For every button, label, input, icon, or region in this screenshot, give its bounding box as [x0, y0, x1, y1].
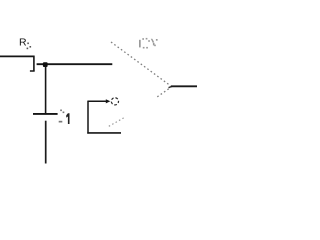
switch arm dashed CY [111, 42, 170, 86]
annotation dashes lower [109, 118, 124, 127]
wire to capacitor [45, 66, 47, 114]
capacitor C1 label C marks [59, 110, 65, 123]
wire main horizontal [37, 63, 113, 65]
resistor R subscript marks [27, 43, 32, 50]
switch frame top arm [88, 100, 106, 102]
svg-text:R: R [19, 37, 27, 49]
switch frame arrow head [106, 99, 111, 103]
switch S contact foot [30, 70, 35, 72]
capacitor C1 label digit 1 [66, 113, 69, 124]
label CY [139, 38, 158, 49]
wire input left [0, 55, 35, 57]
switch arm lower dashed [157, 88, 169, 97]
capacitor C1 plate [33, 113, 58, 115]
switch arm tip [169, 86, 173, 87]
switch frame bottom arm [87, 132, 121, 134]
switch S contact bar [33, 56, 35, 72]
switch frame left side [87, 101, 89, 134]
wire below capacitor [45, 121, 47, 164]
terminal circle [111, 98, 118, 105]
node junction dot [43, 62, 48, 67]
wire output right [171, 85, 197, 87]
